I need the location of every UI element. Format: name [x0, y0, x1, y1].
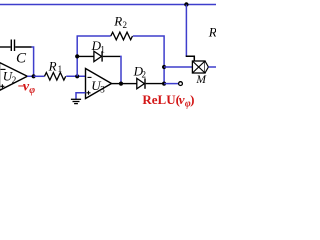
- op-amp U3 minus marker: [88, 76, 92, 78]
- wire: vertical drop from rail toward multiplier: [185, 5, 187, 57]
- svg-text:2: 2: [142, 70, 147, 80]
- resistor R2: [111, 32, 133, 40]
- diode D2: [137, 78, 145, 88]
- multiplier M beak: [205, 61, 208, 73]
- svg-text:ReLU(: ReLU(: [142, 92, 180, 107]
- wire: D2 cathode to output node: [146, 83, 164, 85]
- wire: R2 to right corner, down riser to output node: [133, 36, 164, 84]
- svg-text:2: 2: [123, 20, 128, 30]
- wire: output stub to terminal: [164, 83, 178, 85]
- ground: [71, 98, 81, 100]
- wire: vertical feedback riser: [76, 36, 78, 76]
- node: output node dot: [162, 82, 166, 86]
- svg-text:3: 3: [100, 84, 105, 94]
- wire: D1 cathode to corner: [103, 55, 120, 57]
- resistor R1: [45, 73, 66, 81]
- wire: black elbow into multiplier top: [186, 56, 195, 61]
- svg-text:M: M: [195, 74, 207, 86]
- op-amp U2 (clipped at left edge): [0, 63, 27, 91]
- wire: U2 output to node: [27, 75, 33, 77]
- svg-text:φ: φ: [29, 85, 35, 96]
- svg-text:1: 1: [100, 45, 105, 55]
- wire: multiplier left input: [164, 66, 192, 68]
- node: junction dot on top rail: [184, 2, 188, 6]
- svg-text:): ): [190, 92, 194, 107]
- wire: D1 anode wire: [77, 55, 94, 57]
- node: output junction dot (D1 feedback): [119, 82, 123, 86]
- op-amp U2 plus marker: [0, 85, 4, 87]
- wire: U3 plus input to ground: [76, 93, 86, 99]
- svg-text:v: v: [179, 92, 185, 107]
- svg-text:R: R: [113, 13, 122, 28]
- op-amp U3: [86, 69, 112, 99]
- wire: R2 feedback top run: [77, 35, 111, 37]
- terminal: open circle: [179, 82, 183, 86]
- svg-text:1: 1: [58, 64, 63, 74]
- wire: to D2 anode: [121, 83, 137, 85]
- wire: U3 output: [112, 83, 122, 85]
- multiplier M box: [192, 61, 205, 73]
- svg-text:R: R: [208, 25, 216, 40]
- node: inverting input junction dot: [75, 74, 79, 78]
- svg-text:2: 2: [12, 75, 16, 85]
- diode D1: [94, 51, 102, 61]
- wire: R1 to inverting node: [66, 75, 85, 77]
- capacitor C plates: [10, 40, 12, 52]
- node: U2 output junction dot: [31, 74, 35, 78]
- op-amp U3 plus marker: [87, 92, 91, 94]
- wire: blue corner down to output row: [120, 56, 121, 83]
- node: D1 tap junction dot: [75, 54, 79, 58]
- node: multiplier tap dot: [162, 65, 166, 69]
- capacitor C right wire and blue corner down to output node: [15, 46, 31, 48]
- wire: multiplier output: [208, 66, 216, 68]
- svg-text:R: R: [48, 58, 57, 73]
- wire: top supply rail: [0, 4, 216, 6]
- capacitor C left wire: [0, 46, 11, 48]
- svg-text:C: C: [16, 50, 27, 66]
- op-amp U2 minus marker: [1, 68, 6, 70]
- wire: node to R1: [34, 75, 45, 77]
